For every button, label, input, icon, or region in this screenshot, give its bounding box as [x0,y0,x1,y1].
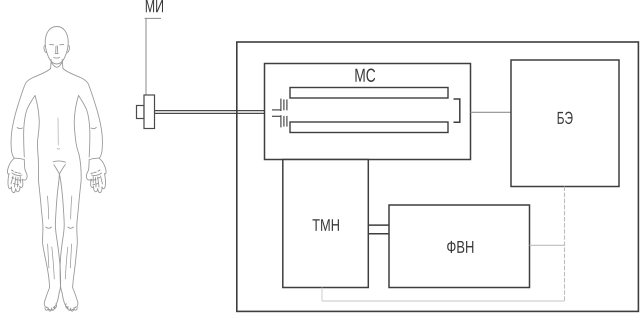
right bracket of МС plates [454,99,460,122]
block БЭ box [511,60,619,187]
block ФВН box [389,205,530,288]
wire ТМН down [321,288,323,302]
label МС [355,69,375,82]
navel mark [57,148,60,151]
leader line vertical to sensor [145,18,147,95]
left torso side [35,96,39,160]
bottom brush symbol [272,115,287,127]
left hand [7,158,27,192]
label МИ [146,0,163,12]
left ear [44,45,46,52]
right foot toe marks [67,307,76,310]
label ТМН [312,219,338,231]
left shoulder and outer arm [11,69,50,159]
left inner arm [24,96,35,158]
left calf line [48,244,49,268]
human body outline [7,27,106,312]
left leg inner [55,183,60,293]
right shoulder and outer arm [63,69,102,159]
МС bottom plate bar [290,122,448,133]
left leg outer [38,159,49,288]
left foot [44,288,59,312]
left elbow crease [17,128,22,129]
neck right [61,60,64,69]
left shin line [52,247,55,279]
wire МС to БЭ [471,111,512,113]
leader line under МИ [145,17,162,19]
right hand knuckle marks [91,170,101,185]
pubic v [53,161,65,182]
right shin line [65,247,68,279]
block МС box [265,64,471,160]
right hand finger lines [92,173,103,187]
collarbone v [52,63,62,68]
right leg outer [73,155,82,288]
mouth [54,57,60,60]
right knee mark [68,227,74,228]
sensor МИ body [144,95,155,129]
right leg inner [60,183,64,293]
block ТМН box [283,160,369,288]
left knee mark [46,227,52,228]
eyes [50,44,64,46]
wire feedback bottom [322,300,565,302]
left thigh line [48,196,49,219]
left hand finger lines [11,173,22,187]
wire ТМН to ФВН (double line) [368,224,389,226]
label ФВН [447,241,473,253]
right thigh line [71,196,72,219]
label БЭ [558,112,573,124]
right inner arm [79,96,90,158]
right foot [62,288,78,312]
top brush symbol [272,99,287,111]
sensor МИ small square [137,106,145,119]
right hand [86,158,106,192]
right calf line [70,244,71,268]
right elbow crease [91,128,96,129]
head [45,27,68,65]
МС top plate bar [290,88,448,99]
right torso side [74,96,79,155]
wire ФВН right [530,244,565,246]
outer enclosure box [237,42,639,311]
right ear [67,45,69,52]
left foot toe marks [46,307,55,310]
wire: sensor to МС (double line) [155,110,265,112]
abdomen midline [57,118,59,145]
left hand knuckle marks [12,170,22,185]
nose [55,46,58,54]
wire БЭ down [564,187,566,302]
neck left [50,60,53,69]
